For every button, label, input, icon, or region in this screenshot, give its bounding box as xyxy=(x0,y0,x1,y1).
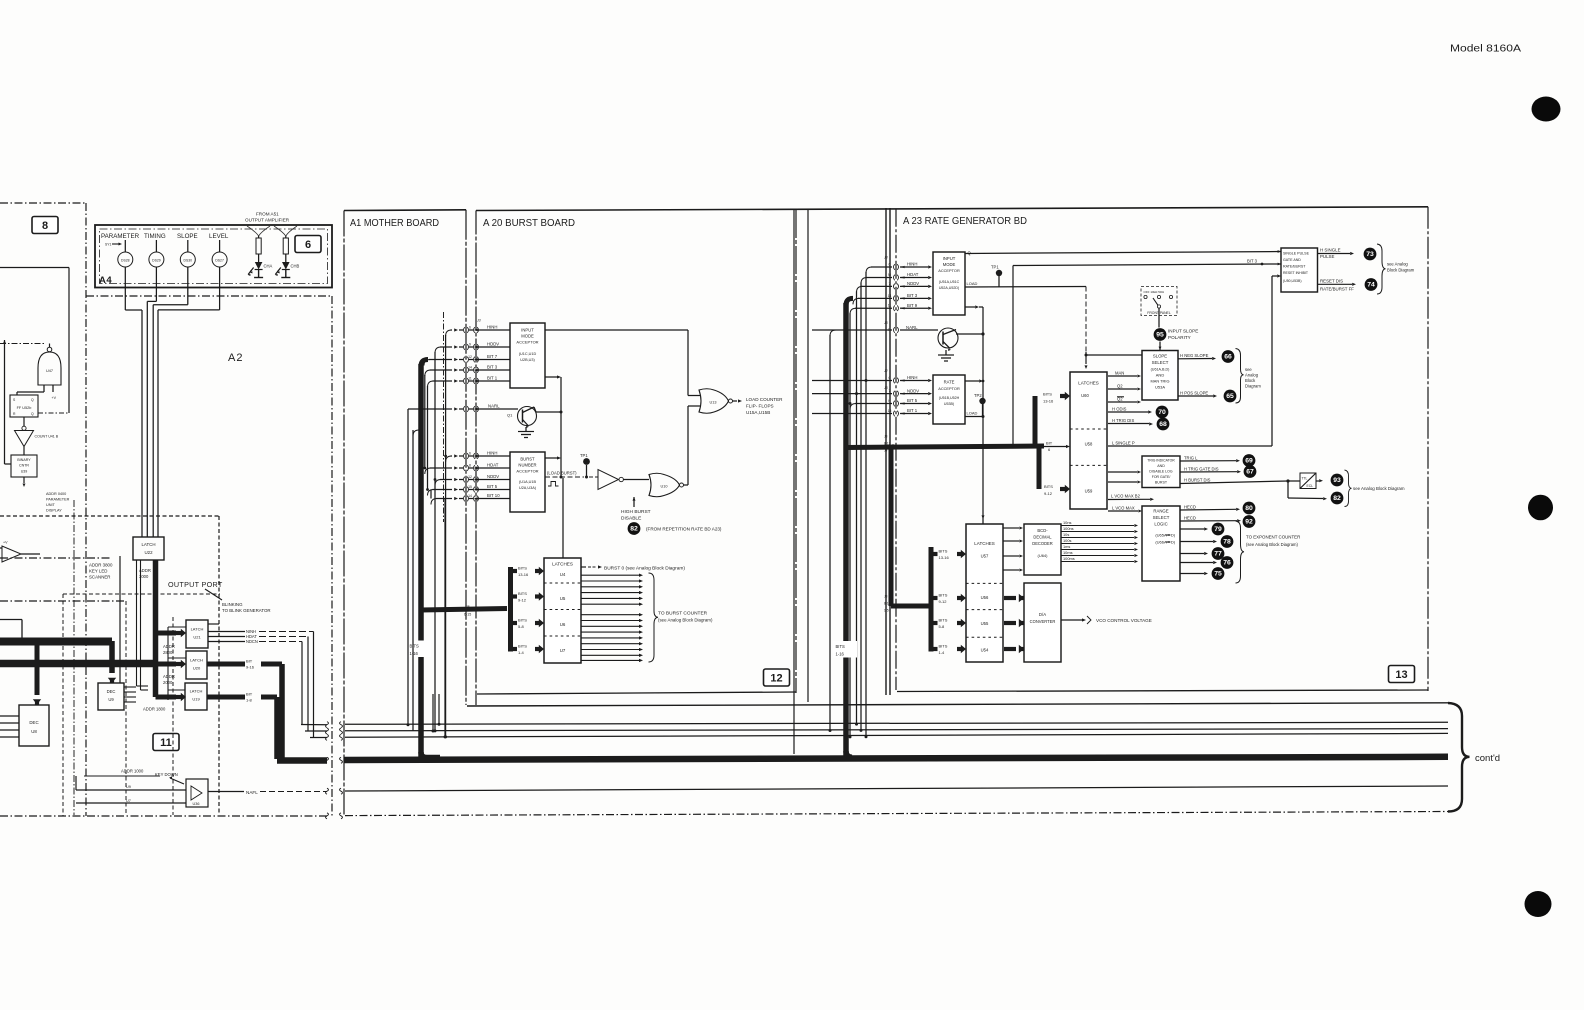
svg-text:H NEG SLOPE: H NEG SLOPE xyxy=(1180,353,1209,358)
svg-text:BITS: BITS xyxy=(939,644,948,649)
svg-text:6-15: 6-15 xyxy=(464,613,471,617)
svg-text:2000: 2000 xyxy=(163,680,173,685)
svg-text:BIT 1: BIT 1 xyxy=(487,376,498,381)
svg-text:NUMBER: NUMBER xyxy=(518,463,536,468)
svg-text:8: 8 xyxy=(469,463,471,467)
svg-text:Q: Q xyxy=(31,398,34,402)
svg-text:U13: U13 xyxy=(710,401,717,405)
svg-text:BITS: BITS xyxy=(939,618,948,623)
svg-text:100ns: 100ns xyxy=(1063,526,1074,531)
svg-text:(U64): (U64) xyxy=(1037,553,1048,558)
svg-text:(U50,U53B): (U50,U53B) xyxy=(1283,279,1301,283)
svg-text:FF U52b: FF U52b xyxy=(17,406,32,410)
svg-text:67: 67 xyxy=(1246,469,1254,476)
svg-text:(U1A,U1B: (U1A,U1B xyxy=(519,480,537,484)
svg-text:8-13: 8-13 xyxy=(884,602,891,606)
svg-text:MODE: MODE xyxy=(521,334,534,339)
svg-text:U22: U22 xyxy=(144,550,153,555)
svg-text:(U61A,B,D): (U61A,B,D) xyxy=(1151,368,1170,372)
svg-text:L VCO MAX: L VCO MAX xyxy=(1112,505,1135,510)
svg-text:U60: U60 xyxy=(1081,393,1089,398)
svg-text:15: 15 xyxy=(468,485,472,489)
svg-text:DS27: DS27 xyxy=(215,258,224,262)
svg-text:M: M xyxy=(888,273,891,277)
svg-text:Q: Q xyxy=(31,412,34,416)
svg-text:NARL: NARL xyxy=(488,403,500,408)
svg-text:SLOPE: SLOPE xyxy=(177,233,198,240)
svg-text:10s: 10s xyxy=(1063,532,1069,537)
svg-text:U9: U9 xyxy=(126,785,131,789)
svg-text:TP2: TP2 xyxy=(974,393,982,398)
svg-text:LATCH: LATCH xyxy=(190,658,203,663)
svg-text:10ns: 10ns xyxy=(1063,520,1071,525)
svg-text:L SINGLE P: L SINGLE P xyxy=(1112,440,1135,445)
svg-text:VCO CONTROL VOLTAGE: VCO CONTROL VOLTAGE xyxy=(1096,618,1152,623)
svg-text:TO BURST COUNTER: TO BURST COUNTER xyxy=(658,611,708,617)
svg-text:12: 12 xyxy=(770,673,782,685)
svg-text:6: 6 xyxy=(305,239,311,251)
svg-text:ADDR 0400: ADDR 0400 xyxy=(46,492,66,496)
svg-text:SLOPE: SLOPE xyxy=(1153,354,1167,359)
svg-text:(see Analog Block Diagram): (see Analog Block Diagram) xyxy=(1246,542,1299,547)
svg-text:A4: A4 xyxy=(99,275,112,286)
svg-text:(U51A,U51C: (U51A,U51C xyxy=(939,280,960,284)
svg-text:BIT 7: BIT 7 xyxy=(487,354,498,359)
svg-text:DS30: DS30 xyxy=(184,258,193,262)
svg-text:J3: J3 xyxy=(883,386,888,390)
svg-text:1-4: 1-4 xyxy=(518,650,525,655)
svg-text:U5: U5 xyxy=(560,596,566,601)
svg-text:J4: J4 xyxy=(884,449,888,453)
svg-text:NDCN: NDCN xyxy=(246,639,258,644)
svg-text:ACCEPTOR: ACCEPTOR xyxy=(516,340,538,345)
svg-text:RATE: RATE xyxy=(944,380,955,385)
svg-text:PARAMETER: PARAMETER xyxy=(101,233,140,240)
svg-text:J3: J3 xyxy=(476,319,481,323)
svg-text:OFF 10kΩ 50Ω: OFF 10kΩ 50Ω xyxy=(1144,290,1165,294)
svg-text:U21: U21 xyxy=(193,635,201,640)
svg-text:U47: U47 xyxy=(46,369,53,373)
svg-text:6: 6 xyxy=(469,325,471,329)
svg-text:U56: U56 xyxy=(981,595,989,600)
svg-text:BINARY: BINARY xyxy=(17,458,31,462)
svg-text:TO BLINK GENERATOR: TO BLINK GENERATOR xyxy=(222,608,271,613)
svg-text:77: 77 xyxy=(1214,551,1222,558)
svg-text:12: 12 xyxy=(468,475,472,479)
svg-text:TIMING: TIMING xyxy=(144,233,166,240)
svg-text:U10: U10 xyxy=(661,485,668,489)
svg-text:ADDR 3800: ADDR 3800 xyxy=(89,563,113,568)
svg-text:NDDV: NDDV xyxy=(907,388,919,393)
svg-text:73: 73 xyxy=(1366,251,1374,258)
svg-text:DS28: DS28 xyxy=(121,258,130,262)
svg-text:U55: U55 xyxy=(981,621,989,626)
svg-text:BIT: BIT xyxy=(246,659,253,664)
svg-text:(U65A: (U65A xyxy=(1155,533,1167,538)
svg-text:Block Diagram: Block Diagram xyxy=(1387,268,1415,273)
svg-text:U15A,U15B: U15A,U15B xyxy=(746,410,770,415)
svg-text:LOAD: LOAD xyxy=(967,281,978,286)
svg-text:TTL: TTL xyxy=(1302,477,1308,481)
svg-text:H TRIG GATE DIS: H TRIG GATE DIS xyxy=(1184,466,1219,471)
svg-text:+V: +V xyxy=(52,396,57,400)
svg-text:U4: U4 xyxy=(560,572,566,577)
svg-text:U52A,U52D): U52A,U52D) xyxy=(939,286,959,290)
svg-text:BIT 9: BIT 9 xyxy=(907,303,918,308)
svg-text:7: 7 xyxy=(889,282,891,286)
svg-text:H ODIS: H ODIS xyxy=(1112,406,1127,411)
svg-text:DS29: DS29 xyxy=(152,258,161,262)
svg-text:14: 14 xyxy=(468,365,472,369)
svg-text:BLINKING: BLINKING xyxy=(222,602,243,607)
svg-text:9: 9 xyxy=(469,342,471,346)
svg-text:AND: AND xyxy=(1156,373,1165,378)
svg-text:U19: U19 xyxy=(192,697,200,702)
svg-text:OUTPUT AMPLIFIER: OUTPUT AMPLIFIER xyxy=(245,218,290,223)
svg-text:13-16: 13-16 xyxy=(939,555,950,560)
svg-text:J5: J5 xyxy=(466,605,470,609)
svg-text:1-4: 1-4 xyxy=(939,650,946,655)
svg-text:66: 66 xyxy=(1224,354,1232,361)
svg-text:INPUT: INPUT xyxy=(521,328,534,333)
svg-text:HDAT: HDAT xyxy=(907,272,919,277)
svg-text:BIT: BIT xyxy=(246,692,253,697)
svg-text:14: 14 xyxy=(888,294,892,298)
svg-text:BITS: BITS xyxy=(939,549,948,554)
svg-text:DECIMAL: DECIMAL xyxy=(1033,535,1052,540)
svg-text:U2B,U3): U2B,U3) xyxy=(520,358,535,362)
svg-text:U58: U58 xyxy=(1085,442,1093,447)
svg-text:Model 8160A: Model 8160A xyxy=(1450,44,1521,55)
svg-text:RATE/BURST FF: RATE/BURST FF xyxy=(1320,287,1354,292)
svg-text:D): D) xyxy=(1171,540,1176,545)
svg-text:MODE: MODE xyxy=(943,262,956,267)
svg-text:cont'd: cont'd xyxy=(1475,753,1500,764)
svg-text:1-5: 1-5 xyxy=(884,609,889,613)
svg-text:(U66A: (U66A xyxy=(1155,540,1167,545)
svg-text:76: 76 xyxy=(1223,560,1231,567)
svg-text:ACCEPTOR: ACCEPTOR xyxy=(516,469,538,474)
svg-text:82: 82 xyxy=(1333,495,1341,502)
svg-text:68: 68 xyxy=(1159,421,1167,428)
svg-text:(U1C,U1D: (U1C,U1D xyxy=(519,352,537,356)
svg-text:INPUT: INPUT xyxy=(943,256,956,261)
svg-text:74: 74 xyxy=(1367,282,1375,289)
svg-text:BIT 10: BIT 10 xyxy=(487,493,500,498)
svg-text:RESET INHIBIT: RESET INHIBIT xyxy=(1283,271,1309,275)
svg-text:RATE/BURST: RATE/BURST xyxy=(1283,265,1306,269)
svg-text:DECODER: DECODER xyxy=(1032,541,1053,546)
svg-text:6: 6 xyxy=(889,262,891,266)
svg-text:93: 93 xyxy=(1333,477,1341,484)
svg-text:11: 11 xyxy=(888,304,892,308)
svg-text:BITS: BITS xyxy=(836,644,846,649)
svg-text:HINH: HINH xyxy=(907,262,918,267)
svg-text:KEY LED: KEY LED xyxy=(89,569,107,574)
svg-text:SELECT: SELECT xyxy=(1153,515,1170,520)
svg-text:BIT 5: BIT 5 xyxy=(487,484,498,489)
svg-text:+V: +V xyxy=(3,541,8,545)
svg-text:CONVERTER: CONVERTER xyxy=(1030,619,1056,624)
svg-text:95: 95 xyxy=(1156,332,1164,339)
svg-text:HDDV: HDDV xyxy=(487,342,499,347)
svg-text:(FROM REPETITION RATE BD A23): (FROM REPETITION RATE BD A23) xyxy=(646,527,722,532)
svg-text:ADDR 1000: ADDR 1000 xyxy=(121,769,144,774)
svg-text:BIT 5: BIT 5 xyxy=(907,398,918,403)
svg-text:NDDV: NDDV xyxy=(907,281,919,286)
svg-text:Analog: Analog xyxy=(1245,373,1259,378)
svg-text:FLIP- FLOPS: FLIP- FLOPS xyxy=(746,404,774,409)
svg-text:1ms: 1ms xyxy=(1063,544,1070,549)
svg-text:see Analog Block Diagram: see Analog Block Diagram xyxy=(1353,486,1405,491)
svg-text:BITS: BITS xyxy=(1044,484,1053,489)
svg-text:H TRIG DIS: H TRIG DIS xyxy=(1112,418,1134,423)
svg-text:75: 75 xyxy=(1214,571,1222,578)
svg-text:9-12: 9-12 xyxy=(1044,491,1053,496)
svg-text:(see Analog Block Diagram): (see Analog Block Diagram) xyxy=(658,618,713,623)
svg-text:100s: 100s xyxy=(1063,538,1071,543)
svg-text:GATE AND: GATE AND xyxy=(1283,258,1301,262)
svg-text:U8: U8 xyxy=(31,729,37,734)
svg-text:Block: Block xyxy=(1245,378,1256,383)
svg-text:Q1: Q1 xyxy=(507,413,513,418)
svg-text:80: 80 xyxy=(1245,505,1253,512)
svg-text:7: 7 xyxy=(889,389,891,393)
svg-text:13: 13 xyxy=(1395,669,1407,681)
svg-text:UNIT: UNIT xyxy=(46,503,56,507)
svg-text:Q2: Q2 xyxy=(1117,383,1123,388)
svg-text:LATCH: LATCH xyxy=(141,542,155,547)
svg-text:DISABLE LOG: DISABLE LOG xyxy=(1149,470,1172,474)
svg-text:U53B): U53B) xyxy=(944,402,954,406)
svg-text:LATCH: LATCH xyxy=(190,689,203,694)
svg-text:LOAD: LOAD xyxy=(967,411,978,416)
svg-text:SELECT: SELECT xyxy=(1152,360,1169,365)
svg-text:SINGLE PULSE: SINGLE PULSE xyxy=(1283,252,1310,256)
svg-text:11: 11 xyxy=(160,737,172,749)
svg-text:HINH: HINH xyxy=(487,451,498,456)
svg-text:65: 65 xyxy=(1226,393,1234,400)
svg-text:Q2: Q2 xyxy=(1117,397,1123,402)
svg-text:LATCHES: LATCHES xyxy=(974,541,994,546)
svg-text:BURST 0 (see Analog Block Dia: BURST 0 (see Analog Block Diagram) xyxy=(604,565,685,571)
svg-text:3000: 3000 xyxy=(139,574,149,579)
svg-text:J2: J2 xyxy=(883,369,888,373)
svg-text:LOGIC: LOGIC xyxy=(1154,522,1167,527)
svg-text:TRIG L: TRIG L xyxy=(1184,455,1198,460)
svg-text:1-16: 1-16 xyxy=(410,651,419,656)
svg-text:BIT 3: BIT 3 xyxy=(487,365,498,370)
svg-text:J3: J3 xyxy=(884,595,888,599)
svg-text:U6: U6 xyxy=(560,622,566,627)
svg-text:PARAMETER: PARAMETER xyxy=(46,498,70,502)
svg-text:NAFL: NAFL xyxy=(246,790,258,795)
svg-text:(U51B,U52H: (U51B,U52H xyxy=(939,396,960,400)
svg-text:DISABLE: DISABLE xyxy=(621,516,641,522)
svg-text:TP1: TP1 xyxy=(580,453,588,458)
svg-text:FOR GATE/: FOR GATE/ xyxy=(1152,475,1171,479)
svg-text:L VCO MAX B2: L VCO MAX B2 xyxy=(1111,494,1141,499)
svg-text:TP1: TP1 xyxy=(991,265,999,270)
svg-text:ACCEPTOR: ACCEPTOR xyxy=(938,386,960,391)
svg-text:D/A: D/A xyxy=(1039,612,1046,617)
svg-text:9-12: 9-12 xyxy=(939,599,948,604)
svg-text:OUTPUT PORT: OUTPUT PORT xyxy=(168,580,223,589)
svg-text:69: 69 xyxy=(1245,458,1253,465)
svg-text:DEC: DEC xyxy=(107,689,116,694)
svg-text:MAN: MAN xyxy=(1115,370,1124,375)
svg-text:BIT 3: BIT 3 xyxy=(1247,259,1258,264)
svg-text:D): D) xyxy=(1171,533,1176,538)
svg-text:ADDR: ADDR xyxy=(139,568,151,573)
svg-text:HECD: HECD xyxy=(1184,515,1196,520)
svg-text:92: 92 xyxy=(1245,519,1253,526)
svg-text:11: 11 xyxy=(468,376,472,380)
svg-text:HINH: HINH xyxy=(487,325,498,330)
svg-text:LATCHES: LATCHES xyxy=(1078,381,1098,386)
svg-text:see: see xyxy=(1245,367,1252,372)
svg-text:12: 12 xyxy=(468,355,472,359)
svg-text:U53A: U53A xyxy=(1155,385,1165,390)
svg-text:LATCHES: LATCHES xyxy=(552,562,573,567)
svg-text:see Analog: see Analog xyxy=(1387,262,1408,267)
svg-text:CNTR: CNTR xyxy=(19,464,29,468)
svg-text:15: 15 xyxy=(888,409,892,413)
svg-text:BITS: BITS xyxy=(518,618,527,623)
svg-text:POLARITY: POLARITY xyxy=(1168,335,1191,340)
svg-text:8: 8 xyxy=(42,220,48,232)
svg-text:SY1: SY1 xyxy=(105,243,112,247)
svg-text:AND: AND xyxy=(1157,464,1165,468)
svg-text:U9: U9 xyxy=(108,697,114,702)
svg-text:BIT 1: BIT 1 xyxy=(907,408,918,413)
svg-text:U36: U36 xyxy=(193,802,200,806)
svg-text:J3: J3 xyxy=(883,256,888,260)
svg-text:CHA: CHA xyxy=(264,264,273,269)
svg-text:J3: J3 xyxy=(884,435,888,439)
svg-text:BITS: BITS xyxy=(939,593,948,598)
svg-text:U2A,U3A): U2A,U3A) xyxy=(519,486,537,490)
svg-text:U7: U7 xyxy=(126,799,131,803)
svg-text:ECL: ECL xyxy=(1307,484,1314,488)
svg-text:70: 70 xyxy=(1158,409,1166,416)
svg-text:H SINGLE: H SINGLE xyxy=(1320,248,1341,253)
svg-text:ACCEPTOR: ACCEPTOR xyxy=(938,268,960,273)
svg-text:HECD: HECD xyxy=(1184,504,1196,509)
svg-text:(LOAD BURST): (LOAD BURST) xyxy=(547,471,577,476)
svg-text:BITS: BITS xyxy=(410,644,420,649)
svg-text:78: 78 xyxy=(1223,539,1231,546)
svg-text:13-16: 13-16 xyxy=(1043,399,1054,404)
svg-text:10ms: 10ms xyxy=(1063,550,1073,555)
svg-text:H BURST DIS: H BURST DIS xyxy=(1184,478,1211,483)
svg-text:LATCH: LATCH xyxy=(191,627,204,632)
svg-text:Diagram: Diagram xyxy=(1245,384,1261,389)
svg-text:A2: A2 xyxy=(228,352,243,364)
svg-text:9-12: 9-12 xyxy=(518,598,527,603)
svg-text:BIT 3: BIT 3 xyxy=(907,293,918,298)
svg-text:J3: J3 xyxy=(883,321,888,325)
svg-text:1-8: 1-8 xyxy=(246,698,253,703)
svg-text:TO EXPONENT COUNTER: TO EXPONENT COUNTER xyxy=(1246,535,1300,540)
svg-text:NARL: NARL xyxy=(906,325,918,330)
svg-text:BITS: BITS xyxy=(518,644,527,649)
svg-text:1-16: 1-16 xyxy=(836,652,845,657)
svg-text:U54: U54 xyxy=(981,648,989,653)
svg-text:A1 MOTHER BOARD: A1 MOTHER BOARD xyxy=(350,217,439,229)
svg-text:DEC: DEC xyxy=(29,720,38,725)
svg-text:U7: U7 xyxy=(560,648,566,653)
svg-text:MAN TRIG: MAN TRIG xyxy=(1151,379,1170,384)
svg-text:INPUT SLOPE: INPUT SLOPE xyxy=(1168,329,1198,334)
svg-text:79: 79 xyxy=(1214,526,1222,533)
svg-text:A 23 RATE GENERATOR BD: A 23 RATE GENERATOR BD xyxy=(903,215,1027,227)
svg-text:9-16: 9-16 xyxy=(246,665,255,670)
svg-text:8-13: 8-13 xyxy=(884,442,891,446)
svg-text:RANGE: RANGE xyxy=(1153,509,1168,514)
svg-text:14: 14 xyxy=(468,494,472,498)
svg-text:5-8: 5-8 xyxy=(518,624,525,629)
svg-text:HIGH BURST: HIGH BURST xyxy=(621,509,651,515)
svg-text:6: 6 xyxy=(469,451,471,455)
svg-text:LOAD COUNTER: LOAD COUNTER xyxy=(746,397,783,402)
svg-text:TRIG INDICATOR: TRIG INDICATOR xyxy=(1147,459,1175,463)
svg-text:BITS: BITS xyxy=(1043,392,1052,397)
svg-text:RESET DIS: RESET DIS xyxy=(1320,278,1343,283)
svg-text:BITS: BITS xyxy=(518,566,527,571)
svg-text:A 20 BURST BOARD: A 20 BURST BOARD xyxy=(483,217,575,229)
svg-text:FROM A51: FROM A51 xyxy=(256,212,279,217)
svg-text:13-16: 13-16 xyxy=(518,572,529,577)
svg-text:82: 82 xyxy=(630,526,638,533)
svg-text:H POS SLOPE: H POS SLOPE xyxy=(1180,390,1208,395)
svg-text:NDDV: NDDV xyxy=(487,474,499,479)
svg-text:6: 6 xyxy=(889,376,891,380)
svg-text:BURST: BURST xyxy=(1155,481,1168,485)
svg-text:2800: 2800 xyxy=(163,650,173,655)
svg-text:HDAT: HDAT xyxy=(487,463,499,468)
svg-text:U20: U20 xyxy=(193,666,201,671)
svg-text:CHB: CHB xyxy=(291,264,300,269)
svg-text:BCD-: BCD- xyxy=(1037,528,1048,533)
svg-text:BIT: BIT xyxy=(1046,441,1053,446)
svg-text:HINH: HINH xyxy=(907,375,918,380)
svg-text:U59: U59 xyxy=(1085,489,1093,494)
svg-text:BURST: BURST xyxy=(520,457,535,462)
svg-text:U57: U57 xyxy=(981,554,989,559)
svg-text:5-8: 5-8 xyxy=(939,624,946,629)
svg-text:BITS: BITS xyxy=(518,591,527,596)
svg-text:PULSE: PULSE xyxy=(1320,254,1334,259)
svg-text:ADDR 1800: ADDR 1800 xyxy=(143,707,166,712)
svg-text:DISPLAY: DISPLAY xyxy=(46,509,62,513)
svg-text:U39: U39 xyxy=(21,470,28,474)
svg-text:COUNT U41 B: COUNT U41 B xyxy=(35,435,59,439)
svg-text:LEVEL: LEVEL xyxy=(209,233,229,240)
svg-text:SCANNER: SCANNER xyxy=(89,575,110,580)
svg-text:100ms: 100ms xyxy=(1063,556,1075,561)
